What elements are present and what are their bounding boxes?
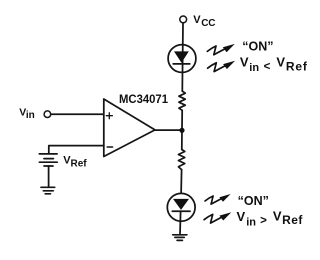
svg-text:MC34071: MC34071 <box>119 92 168 106</box>
svg-text:CC: CC <box>201 18 215 29</box>
svg-text:V: V <box>240 55 249 70</box>
label Vin &lt; VRef upper <box>240 55 308 74</box>
wire R1 to junction to R2 <box>181 110 183 149</box>
resistor R2 <box>178 150 184 170</box>
svg-text:V: V <box>193 14 201 26</box>
svg-text:V: V <box>276 55 285 70</box>
svg-text:<: < <box>264 61 271 73</box>
node VCC terminal <box>180 16 187 23</box>
label Vin &gt; VRef lower <box>237 209 304 229</box>
light arrow D2 a <box>205 194 231 204</box>
light arrow D1 b <box>208 61 236 72</box>
light arrow D2 b <box>204 212 231 223</box>
resistor R1 <box>179 91 185 110</box>
svg-text:in: in <box>26 110 35 121</box>
svg-text:in: in <box>249 62 259 74</box>
light arrow D1 a <box>207 44 235 55</box>
wire R2 to LED D2 <box>180 170 183 199</box>
LED D1 <box>168 45 196 73</box>
svg-text:V: V <box>237 209 246 224</box>
svg-text:Ref: Ref <box>286 59 308 73</box>
ground LED D2 <box>173 235 187 241</box>
wire VCC terminal down through LED1 to resistor R1 <box>181 23 184 91</box>
node output junction dot <box>179 128 184 133</box>
op-amp minus input marking <box>107 146 112 148</box>
battery VRef <box>39 154 57 166</box>
svg-text:“ON”: “ON” <box>238 194 269 208</box>
wire op-amp output to junction <box>155 129 183 131</box>
ground battery <box>41 187 55 194</box>
wire inverting input to battery <box>49 146 104 154</box>
wire battery to ground <box>48 166 50 187</box>
svg-text:V: V <box>273 209 282 224</box>
op-amp U1 MC34071 triangle <box>104 99 155 157</box>
svg-text:>: > <box>260 215 267 227</box>
wire LED D2 to ground <box>179 211 182 234</box>
LED D2 <box>167 193 195 221</box>
svg-text:Ref: Ref <box>282 213 303 227</box>
svg-text:Ref: Ref <box>71 158 88 169</box>
op-amp plus input marking <box>106 113 112 119</box>
node Vin input terminal <box>44 111 51 118</box>
svg-text:“ON”: “ON” <box>242 40 273 54</box>
svg-text:in: in <box>246 216 256 228</box>
wire Vin terminal to op-amp non-inverting input <box>51 113 104 115</box>
